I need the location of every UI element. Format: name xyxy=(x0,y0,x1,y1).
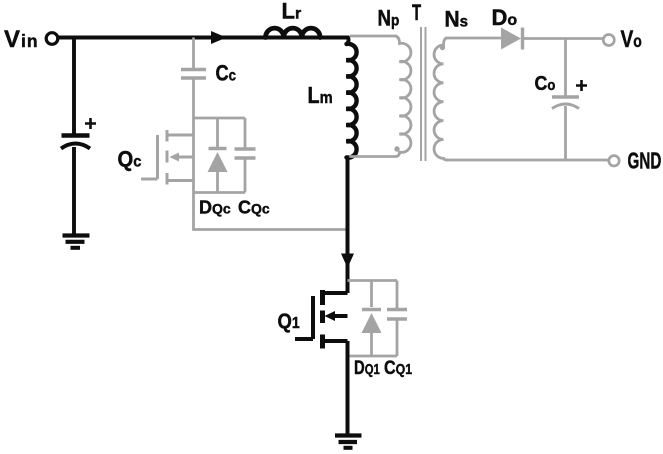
wire top main xyxy=(58,38,349,45)
capacitor CQc xyxy=(235,118,256,193)
transformer winding Np xyxy=(395,36,411,157)
svg-text:Co: Co xyxy=(535,73,556,95)
svg-text:CQc: CQc xyxy=(238,198,270,218)
inductor Lr xyxy=(266,28,321,37)
wire Q1 bottom rail xyxy=(348,355,398,358)
svg-text:DQc: DQc xyxy=(199,198,231,218)
wire input branch xyxy=(72,38,76,135)
wire Cc to clamp cell xyxy=(192,78,195,193)
svg-text:GND: GND xyxy=(628,148,662,174)
wire switch node xyxy=(346,157,350,294)
capacitor Cc xyxy=(181,70,206,79)
diode DQ1 xyxy=(362,281,382,357)
transformer winding Ns xyxy=(434,38,448,160)
wire Do to Vo xyxy=(524,37,603,40)
svg-text:DQ1: DQ1 xyxy=(354,357,380,378)
wire clamp bottom rail xyxy=(194,191,246,194)
capacitor CQ1 xyxy=(387,281,407,357)
inductor Lm xyxy=(347,44,357,158)
wire Co to gnd rail xyxy=(564,106,567,160)
transformer core xyxy=(421,27,426,161)
terminal Vin xyxy=(46,33,58,45)
wire clamp drop xyxy=(192,38,195,69)
svg-text:Vin: Vin xyxy=(4,26,39,53)
wire Ns bottom lead xyxy=(446,159,609,162)
svg-text:T: T xyxy=(412,0,422,25)
wire Q1 top rail xyxy=(348,279,398,282)
capacitor input electrolytic xyxy=(61,118,96,149)
arrow switch node xyxy=(341,254,354,269)
arrow current direction xyxy=(211,31,227,44)
capacitor Co xyxy=(552,80,587,109)
wire Ns top lead xyxy=(445,37,501,40)
wire Q1 source to ground xyxy=(346,341,350,434)
wire Np bottom lead xyxy=(349,155,397,158)
wire input cap to ground xyxy=(72,147,76,234)
svg-text:Q1: Q1 xyxy=(278,310,300,333)
wire clamp top rail xyxy=(194,117,246,120)
wire clamp return xyxy=(194,193,348,230)
terminal Vo xyxy=(603,35,614,46)
transistor Q1 xyxy=(295,290,348,349)
diode Do xyxy=(501,28,523,50)
transformer dot Ns xyxy=(440,45,445,50)
wire Co branch xyxy=(564,39,567,97)
wire Np top lead xyxy=(350,35,397,38)
ground main xyxy=(335,436,362,448)
diode DQc xyxy=(208,118,228,193)
ground input xyxy=(63,236,90,248)
terminal GND xyxy=(609,156,619,166)
transformer dot Np xyxy=(394,146,399,151)
transistor Qc xyxy=(141,130,194,185)
